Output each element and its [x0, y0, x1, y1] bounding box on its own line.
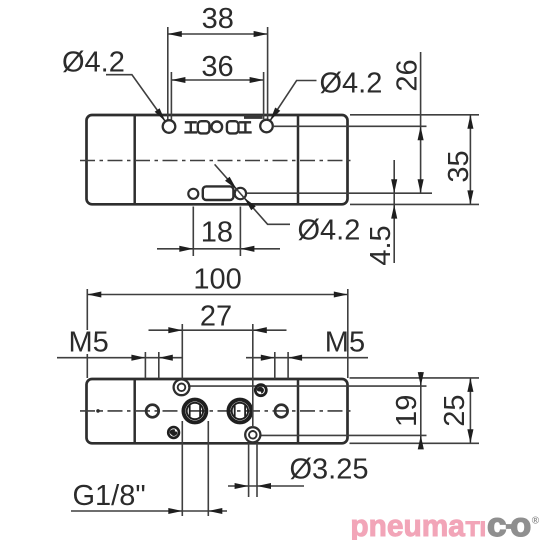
arrow M5 right b [288, 355, 302, 361]
arrow leader bottom lower [242, 196, 256, 211]
svg-text:Ø4.2: Ø4.2 [62, 46, 125, 78]
extension line 18 right [239, 207, 241, 257]
marking I-glyph right [239, 122, 252, 134]
top view right section line [297, 116, 300, 204]
arrow 35 top [467, 115, 473, 129]
bottom row small hole [188, 189, 198, 199]
extension line 27 left [181, 324, 183, 379]
svg-text:Ø3.25: Ø3.25 [290, 453, 369, 485]
arrow M5 right a [261, 355, 275, 361]
extension line body top edge [350, 114, 479, 116]
extension line right inner [263, 72, 265, 119]
pneumatico logo [350, 506, 539, 540]
svg-text:pneuma: pneuma [350, 508, 465, 540]
leader line top-left hole [106, 75, 165, 122]
arrow 35 bottom [467, 190, 473, 204]
dimension texts [62, 3, 475, 512]
arrow leader top-right [267, 107, 280, 122]
dimension O3.25 line [228, 485, 304, 487]
arrow leader top-left [155, 108, 168, 123]
arrow 38 left [168, 31, 182, 37]
svg-text:M5: M5 [69, 327, 109, 359]
extension line 100 left lower [86, 354, 88, 378]
svg-text:18: 18 [201, 217, 233, 249]
dimension 25 line [469, 378, 471, 443]
bottom row hole O4.2 [235, 188, 246, 199]
arrow 18 left [179, 246, 193, 252]
dimension 35 line [469, 115, 471, 205]
extension line body bottom edge [350, 203, 479, 205]
arrowheads [87, 31, 473, 514]
extension line 100 right [347, 289, 349, 378]
dimension 18 line [157, 248, 280, 250]
arrow O325 left [235, 483, 249, 489]
svg-text:M5: M5 [325, 326, 365, 358]
dimension 100 line [87, 294, 348, 296]
dimension 27 line [149, 329, 287, 331]
arrow leader bottom upper [225, 177, 239, 192]
extension line left outer [167, 27, 169, 120]
dimension G1/8 line [71, 510, 227, 512]
arrow M5 left a [131, 355, 145, 361]
dimension 36 line [171, 79, 263, 81]
svg-text:27: 27 [200, 300, 232, 332]
extension line 25 bottom [350, 442, 480, 444]
extension line top hole row [273, 125, 427, 127]
arrow 4.5 top [391, 179, 397, 193]
arrow M5 left b [159, 355, 173, 361]
bottom view centerline [80, 410, 354, 412]
arrow 26 top [418, 126, 424, 140]
logo dash [506, 524, 513, 529]
arrow 27 right [253, 327, 267, 333]
main port G1/8 right [228, 400, 251, 423]
pilot port M5 left [146, 405, 159, 418]
arrow 25 top [467, 378, 473, 392]
marking rounded box left [198, 121, 210, 133]
arrow 19 top [418, 372, 424, 386]
extension line 100 left upper [86, 289, 88, 330]
arrow 4.5 bottom [391, 205, 397, 219]
arrow 26 bottom [418, 179, 424, 193]
plug screw dark bottom [168, 427, 179, 438]
svg-text:TI: TI [466, 517, 487, 540]
bottom view right section line [297, 380, 300, 443]
svg-text:38: 38 [202, 3, 234, 35]
screw hole counterbore bottom O3.25 [245, 427, 260, 442]
arrow 27 left [168, 327, 182, 333]
bottom row slot [203, 186, 234, 200]
svg-text:26: 26 [392, 59, 424, 91]
dimension M5 right line [246, 357, 368, 359]
pin mark dot [96, 409, 100, 413]
extension lines M5 right [274, 352, 276, 379]
marking slot bar [244, 115, 263, 119]
bottom view valve body outline [87, 379, 348, 443]
extension line 27 right [252, 324, 254, 427]
extension line 19 bottom row [261, 434, 427, 436]
extension line bottom hole row [247, 192, 432, 194]
extension line 18 left [192, 207, 194, 257]
arrow 100 left [87, 291, 101, 297]
arrow O325 right [257, 483, 271, 489]
arrow 36 right [250, 77, 264, 83]
extension line right outer [267, 27, 269, 119]
leader line top-right hole [270, 81, 317, 121]
svg-text:36: 36 [201, 51, 233, 83]
dimension 38 line [168, 33, 268, 35]
svg-text:c: c [487, 506, 507, 540]
dimension 26 line [420, 52, 422, 193]
svg-text:100: 100 [193, 264, 241, 296]
dimension M5 left line [57, 357, 182, 359]
mounting hole top-right [260, 120, 273, 133]
svg-text:G1/8": G1/8" [73, 480, 146, 512]
plug screw dark top [255, 385, 266, 396]
extension lines O3.25 [248, 443, 250, 497]
arrow G18 right [208, 508, 222, 514]
svg-text:19: 19 [391, 395, 423, 427]
pilot port M5 right [275, 405, 288, 418]
marking circle center [212, 122, 223, 133]
arrow 100 right [334, 291, 348, 297]
top view valve body outline [87, 115, 348, 204]
extension line 25 top [350, 377, 480, 379]
svg-text:Ø4.2: Ø4.2 [320, 67, 383, 99]
marking rounded box right [227, 121, 239, 133]
svg-text:®: ® [532, 516, 540, 527]
arrow 38 right [254, 31, 268, 37]
dimension 19 line [420, 372, 422, 449]
arrow 19 bottom [418, 435, 424, 449]
bottom view left section line [133, 380, 136, 443]
leader line bottom hole [215, 164, 290, 224]
dimension 4.5 line [393, 160, 395, 263]
svg-text:Ø4.2: Ø4.2 [298, 214, 361, 246]
svg-text:35: 35 [443, 150, 475, 182]
svg-text:o: o [510, 506, 531, 540]
svg-text:25: 25 [439, 394, 471, 426]
arrow 36 left [171, 77, 185, 83]
top view centerline [80, 160, 354, 162]
extension lines M5 left [144, 352, 146, 379]
arrow G18 left [168, 508, 182, 514]
svg-text:4.5: 4.5 [365, 225, 397, 265]
arrow 18 right [240, 246, 254, 252]
top view left section line [133, 116, 136, 204]
marking I-glyph left [184, 122, 197, 134]
arrow 25 bottom [467, 429, 473, 443]
extension line left inner [170, 72, 172, 120]
extension line 19 top row [188, 385, 427, 387]
screw hole counterbore top [174, 379, 190, 395]
main port G1/8 left [183, 400, 206, 423]
mounting hole top-left [163, 120, 176, 133]
extension lines G1/8 [181, 421, 183, 516]
